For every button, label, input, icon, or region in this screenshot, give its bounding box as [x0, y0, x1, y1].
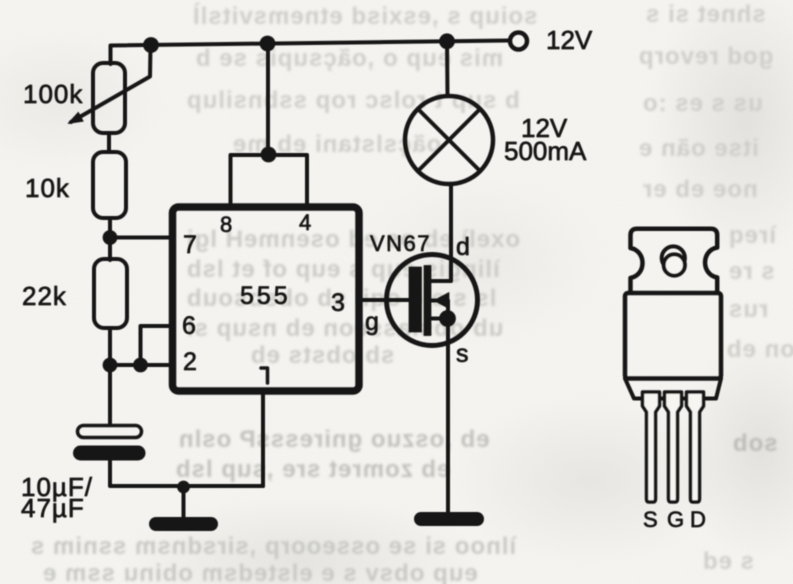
transistor Q1 source stub [431, 317, 447, 321]
pin 1 label glyph [261, 368, 268, 383]
potentiometer R1 100k body [93, 63, 125, 133]
svg-text:12V: 12V [546, 25, 593, 55]
svg-text:s: s [456, 340, 469, 368]
TO-220 mounting hole upper [662, 246, 685, 269]
capacitor C1 bottom plate [81, 446, 139, 461]
bleed-through mirrored text [192, 3, 537, 31]
TO-220 leg D [687, 392, 704, 502]
svg-text:D: D [690, 507, 706, 532]
wire cap to bottom rail [110, 460, 263, 486]
TO-220 mounting hole lower [664, 254, 685, 275]
wire pot to 10k [107, 133, 111, 152]
transistor Q1 VN67 circle [387, 255, 478, 346]
node source dot [440, 311, 456, 327]
svg-text:555: 555 [240, 282, 291, 310]
TO-220 leg S [643, 392, 660, 502]
wire top rail [111, 41, 510, 65]
terminal 12V supply [510, 33, 527, 50]
svg-text:d: d [456, 233, 470, 261]
svg-text:G: G [667, 507, 684, 532]
wire to pin 6 [141, 326, 171, 365]
TO-220 skirt [625, 379, 721, 399]
wire lamp to drain [431, 184, 451, 281]
svg-text:8: 8 [220, 212, 232, 237]
wire rail to lamp [445, 41, 450, 96]
wire gate [359, 298, 410, 302]
svg-text:7: 7 [183, 231, 197, 259]
svg-text:22k: 22k [22, 281, 67, 311]
node top-middle junction [260, 36, 275, 51]
TO-220 leg G [665, 392, 682, 502]
svg-text:S: S [643, 507, 658, 532]
TO-220 body [625, 293, 721, 379]
node junction pins 2-6 left [103, 358, 117, 372]
wire to pin 2 [110, 363, 170, 367]
node top-left junction [144, 38, 159, 53]
node junction pins 2-6 right [134, 358, 148, 372]
potentiometer R1 wiper arrow [71, 46, 151, 123]
resistor R3 22k [94, 259, 127, 328]
wire 22k to cap [108, 328, 112, 425]
resistor R2 10k [93, 152, 126, 218]
node bracket junction [261, 147, 276, 162]
node junction pin7 [103, 231, 117, 245]
wire source to ground [446, 326, 450, 512]
svg-text:47µF: 47µF [21, 493, 85, 523]
svg-text:4: 4 [299, 210, 311, 235]
svg-text:g: g [365, 308, 379, 336]
node lamp junction [440, 34, 455, 49]
wire pin 1 [261, 392, 265, 486]
wire bracket to rail [266, 43, 270, 155]
svg-text:6: 6 [182, 312, 196, 340]
wire pins 8-4 bracket [231, 155, 308, 204]
op-amp U1 555 body [173, 207, 360, 391]
TO-220 package tab [631, 229, 718, 292]
svg-text:3: 3 [331, 289, 345, 317]
capacitor C1 top plate [78, 426, 142, 438]
svg-text:VN67: VN67 [370, 231, 431, 256]
lamp L1 [405, 96, 493, 184]
wire ground stub [182, 487, 186, 518]
svg-text:500mA: 500mA [504, 136, 587, 166]
svg-text:100k: 100k [23, 79, 83, 109]
ground G1 [156, 517, 211, 531]
node bottom junction [178, 481, 190, 493]
transistor Q1 channel bar [424, 266, 431, 336]
transistor Q1 gate bar [409, 267, 422, 332]
transistor Q1 body arrow [431, 299, 437, 303]
svg-text:10k: 10k [25, 173, 70, 203]
wire to pin 7 [110, 236, 170, 240]
ground G2 [421, 512, 477, 526]
wire 10k to 22k [108, 218, 112, 260]
svg-text:2: 2 [183, 348, 197, 376]
